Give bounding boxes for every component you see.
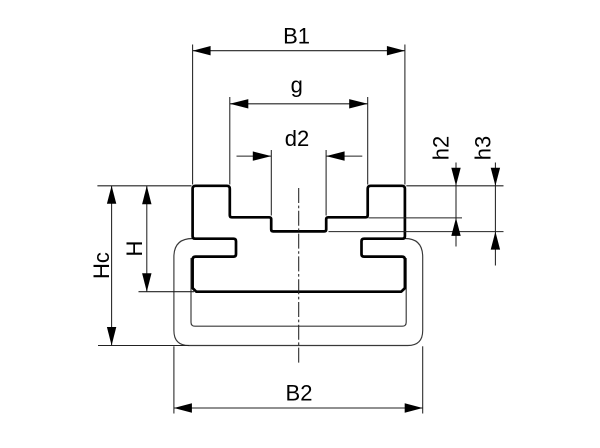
H arrow bottom [142, 273, 151, 292]
d2 dimension line with tails [237, 155, 272, 157]
plastic guide profile outline [193, 186, 405, 292]
left extension: H bottom [139, 291, 195, 293]
g arrow right [349, 99, 368, 108]
B1 extension lines [192, 45, 194, 185]
B2 dimension line [174, 407, 423, 409]
g arrow left [230, 99, 249, 108]
h3 dimension line with tails [494, 163, 496, 266]
g extension lines [229, 97, 231, 185]
svg-text:h3: h3 [471, 136, 496, 160]
g dimension line [230, 103, 368, 105]
B1 dimension line [193, 50, 405, 52]
d2 arrow left (outside, pointing inward) [253, 151, 271, 160]
B2 arrow right [405, 403, 423, 412]
svg-text:d2: d2 [285, 126, 309, 151]
left extension: ear top [97, 185, 191, 187]
H arrow top [142, 186, 151, 205]
arrows [107, 46, 500, 413]
h2 arrow top (outside) [451, 168, 460, 186]
d2 arrow right (outside, pointing inward) [326, 151, 345, 160]
B2 arrow left [174, 403, 192, 412]
steel channel inner profile [191, 258, 406, 326]
Hc arrow top [107, 186, 116, 204]
left extension: Hc bottom [98, 345, 189, 347]
B1 arrow left [193, 46, 211, 55]
Hc dimension line [111, 186, 113, 346]
d2 extension lines [270, 150, 272, 216]
right extension: channel bottom [329, 231, 504, 233]
B2 extension lines [173, 346, 175, 413]
H dimension line [146, 186, 148, 292]
steel channel outer profile [174, 239, 423, 346]
dimension + extension lines [97, 45, 503, 414]
svg-text:B1: B1 [283, 23, 310, 48]
right extension: ear top [406, 185, 503, 187]
svg-text:Hc: Hc [89, 252, 114, 279]
svg-text:h2: h2 [429, 136, 454, 160]
center line [298, 188, 300, 363]
B1 arrow right [387, 46, 405, 55]
right extension: groove surface [369, 217, 463, 219]
Hc arrow bottom [107, 327, 116, 346]
h2 arrow bottom (outside) [451, 218, 460, 236]
h3 arrow top (outside) [491, 168, 500, 186]
svg-text:g: g [291, 73, 303, 98]
svg-text:B2: B2 [286, 381, 313, 406]
h2 dimension line with tails [455, 163, 457, 247]
h3 arrow bottom (outside) [491, 232, 500, 250]
svg-text:H: H [122, 241, 147, 257]
